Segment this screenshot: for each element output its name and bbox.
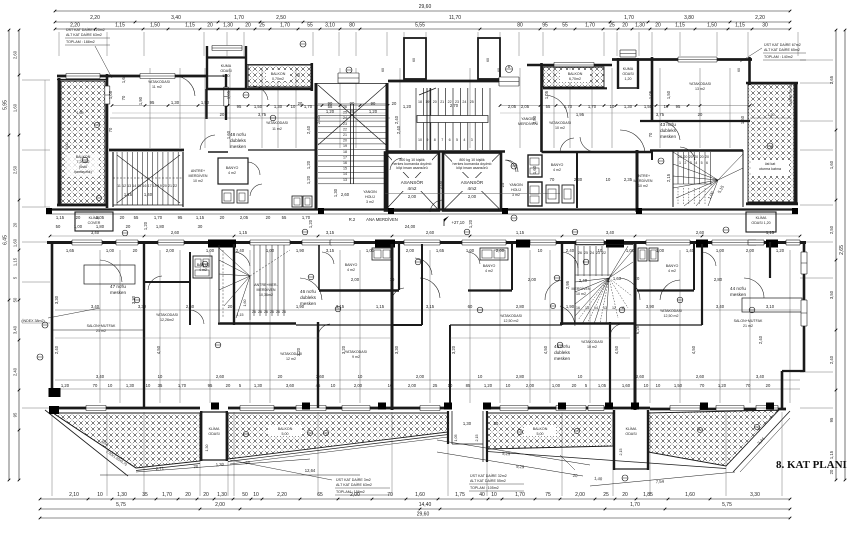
terrace hatch right segment with diagonal bbox=[648, 410, 779, 466]
svg-text:4: 4 bbox=[463, 138, 465, 142]
svg-text:(İNDEX 38m2): (İNDEX 38m2) bbox=[21, 318, 44, 323]
more door arcs upper block bbox=[175, 76, 195, 96]
svg-text:21: 21 bbox=[343, 133, 347, 137]
svg-text:16: 16 bbox=[576, 306, 580, 310]
svg-text:55: 55 bbox=[134, 215, 139, 220]
svg-text:1,30: 1,30 bbox=[624, 104, 633, 109]
svg-text:90: 90 bbox=[371, 101, 376, 106]
svg-text:24: 24 bbox=[590, 251, 594, 255]
svg-text:(üstü: (üstü bbox=[79, 165, 87, 169]
svg-text:48 no'lu: 48 no'lu bbox=[230, 132, 246, 137]
svg-text:4,50: 4,50 bbox=[156, 345, 161, 354]
svg-text:kilçi insan asansörü: kilçi insan asansörü bbox=[456, 166, 487, 170]
svg-text:20: 20 bbox=[635, 276, 640, 281]
svg-text:24,00: 24,00 bbox=[405, 224, 416, 229]
svg-text:20: 20 bbox=[655, 23, 661, 29]
svg-text:1,40: 1,40 bbox=[686, 248, 695, 253]
svg-text:12,64: 12,64 bbox=[305, 468, 316, 473]
svg-text:2,00: 2,00 bbox=[351, 277, 360, 282]
svg-text:YATAKODASI: YATAKODASI bbox=[549, 121, 571, 125]
right apartment interior walls bbox=[542, 151, 653, 153]
balcony top-left hatched BALKON 7,20m2 bbox=[61, 81, 105, 204]
svg-text:17: 17 bbox=[148, 184, 152, 188]
svg-text:10: 10 bbox=[478, 374, 483, 379]
svg-text:1,90: 1,90 bbox=[138, 96, 143, 105]
svg-text:1,00: 1,00 bbox=[466, 248, 475, 253]
svg-text:1,00: 1,00 bbox=[716, 248, 725, 253]
svg-text:1,15: 1,15 bbox=[196, 215, 205, 220]
svg-text:2,20: 2,20 bbox=[755, 15, 765, 21]
svg-text:1,50: 1,50 bbox=[150, 23, 160, 29]
svg-text:55: 55 bbox=[282, 215, 287, 220]
fire stair YANGIN MERDIVENI bbox=[315, 83, 318, 210]
svg-text:2,20: 2,20 bbox=[70, 23, 80, 29]
svg-text:70: 70 bbox=[550, 177, 555, 182]
svg-text:1,30: 1,30 bbox=[205, 445, 209, 452]
svg-text:5,00: 5,00 bbox=[282, 432, 289, 436]
svg-text:HOLÜ: HOLÜ bbox=[511, 188, 521, 192]
svg-text:21 m2: 21 m2 bbox=[743, 324, 753, 328]
svg-text:ASANSÖR: ASANSÖR bbox=[461, 179, 484, 185]
svg-text:6,25: 6,25 bbox=[635, 325, 640, 334]
svg-text:25: 25 bbox=[433, 383, 438, 388]
svg-text:11: 11 bbox=[117, 184, 121, 188]
svg-text:1,60: 1,60 bbox=[613, 276, 622, 281]
banyo room 47 apartment bbox=[193, 256, 212, 278]
wall above right stair bbox=[650, 149, 743, 151]
svg-text:8: 8 bbox=[434, 138, 436, 142]
svg-text:2,50: 2,50 bbox=[13, 165, 18, 174]
svg-text:26: 26 bbox=[343, 105, 347, 109]
svg-text:BALKON: BALKON bbox=[568, 72, 583, 76]
svg-text:20: 20 bbox=[185, 492, 191, 498]
wc fixtures below fire stair bbox=[292, 196, 302, 207]
svg-text:ANTRE+: ANTRE+ bbox=[636, 174, 650, 178]
svg-text:BANYO: BANYO bbox=[226, 166, 239, 170]
svg-text:13: 13 bbox=[603, 306, 607, 310]
svg-text:1,20: 1,20 bbox=[776, 248, 785, 253]
svg-text:2,00: 2,00 bbox=[354, 383, 363, 388]
svg-text:19: 19 bbox=[158, 184, 162, 188]
top dimension line 29,60 bbox=[55, 10, 790, 12]
svg-text:1,00: 1,00 bbox=[266, 248, 275, 253]
circle marker right of central stair bbox=[506, 66, 513, 73]
svg-text:26: 26 bbox=[264, 310, 268, 314]
svg-text:20: 20 bbox=[705, 155, 709, 159]
svg-text:3,30: 3,30 bbox=[54, 295, 59, 304]
svg-text:20: 20 bbox=[343, 139, 347, 143]
svg-text:70: 70 bbox=[700, 383, 705, 388]
svg-text:3,40: 3,40 bbox=[171, 15, 181, 21]
svg-text:1,60: 1,60 bbox=[685, 492, 695, 498]
svg-text:1,50: 1,50 bbox=[666, 90, 671, 99]
svg-text:12,26m2: 12,26m2 bbox=[160, 318, 174, 322]
svg-text:2,00: 2,00 bbox=[408, 383, 417, 388]
svg-text:2,15: 2,15 bbox=[619, 449, 623, 456]
svg-text:85: 85 bbox=[466, 383, 471, 388]
svg-text:95: 95 bbox=[829, 417, 834, 422]
svg-text:ALT KAT DAİRE 63m2: ALT KAT DAİRE 63m2 bbox=[336, 482, 372, 487]
svg-text:30: 30 bbox=[198, 224, 203, 229]
lower block left wall bbox=[51, 244, 54, 396]
svg-text:1,20: 1,20 bbox=[308, 219, 313, 228]
svg-text:7,54: 7,54 bbox=[656, 479, 665, 485]
wall stubs above central stair bbox=[404, 38, 426, 79]
svg-text:5,55: 5,55 bbox=[415, 23, 425, 29]
balcony walls bbox=[58, 78, 61, 206]
svg-text:ÜST KAT DAİRE 67m2: ÜST KAT DAİRE 67m2 bbox=[764, 42, 801, 47]
svg-text:95: 95 bbox=[13, 412, 18, 417]
kuma left wall extension down bbox=[205, 89, 207, 119]
svg-text:YATAKODASI: YATAKODASI bbox=[266, 121, 288, 125]
svg-text:1,20: 1,20 bbox=[468, 219, 473, 228]
svg-text:70: 70 bbox=[746, 383, 751, 388]
svg-text:45: 45 bbox=[316, 383, 321, 388]
svg-text:6: 6 bbox=[449, 138, 451, 142]
svg-text:1,15: 1,15 bbox=[735, 23, 745, 29]
terrace hatch right bbox=[748, 84, 794, 202]
svg-text:2,50: 2,50 bbox=[276, 15, 286, 21]
svg-text:20: 20 bbox=[76, 215, 81, 220]
svg-text:18: 18 bbox=[153, 184, 157, 188]
top dimension line row3 bbox=[55, 28, 790, 30]
svg-text:mesken: mesken bbox=[660, 134, 677, 139]
svg-text:1,70: 1,70 bbox=[234, 15, 244, 21]
svg-text:2,60: 2,60 bbox=[696, 230, 705, 235]
right wall windows bbox=[801, 252, 807, 274]
svg-text:10: 10 bbox=[491, 492, 497, 498]
svg-text:14,40: 14,40 bbox=[419, 502, 432, 508]
svg-text:2,00: 2,00 bbox=[215, 502, 225, 508]
svg-text:3,15: 3,15 bbox=[326, 248, 335, 253]
svg-text:1,15: 1,15 bbox=[13, 257, 18, 266]
svg-text:2,60: 2,60 bbox=[13, 50, 18, 59]
svg-text:20: 20 bbox=[350, 109, 355, 114]
svg-text:2,40: 2,40 bbox=[396, 125, 401, 134]
svg-text:9 m2: 9 m2 bbox=[352, 355, 360, 359]
BANYO small room left apartment bbox=[218, 158, 248, 184]
svg-text:2,10: 2,10 bbox=[69, 492, 79, 498]
interior dim lines upper block bbox=[112, 105, 388, 107]
svg-text:20: 20 bbox=[678, 155, 682, 159]
svg-text:3,10: 3,10 bbox=[325, 23, 335, 29]
svg-text:29,60: 29,60 bbox=[417, 512, 430, 518]
svg-text:ASANSÖR: ASANSÖR bbox=[401, 179, 424, 185]
svg-text:10: 10 bbox=[158, 374, 163, 379]
svg-text:11 m2: 11 m2 bbox=[272, 127, 282, 131]
svg-text:7: 7 bbox=[441, 138, 443, 142]
svg-text:3,15: 3,15 bbox=[426, 304, 435, 309]
svg-text:ALT KAT DAİRE 55m2: ALT KAT DAİRE 55m2 bbox=[470, 478, 506, 483]
circle markers in terrace bbox=[243, 431, 248, 436]
svg-text:1,50: 1,50 bbox=[674, 383, 683, 388]
svg-text:dubleks: dubleks bbox=[230, 138, 247, 143]
svg-text:24: 24 bbox=[462, 100, 466, 104]
svg-text:22: 22 bbox=[173, 184, 177, 188]
svg-text:5: 5 bbox=[701, 161, 703, 165]
svg-text:14: 14 bbox=[343, 172, 347, 176]
svg-text:çamaşırlık): çamaşırlık) bbox=[74, 170, 92, 174]
svg-text:1,15: 1,15 bbox=[376, 304, 385, 309]
svg-text:26: 26 bbox=[270, 310, 274, 314]
svg-text:24: 24 bbox=[343, 116, 347, 120]
balcony left extension line bbox=[44, 80, 46, 207]
svg-text:1,70: 1,70 bbox=[162, 492, 172, 498]
svg-text:1,70: 1,70 bbox=[178, 383, 187, 388]
svg-text:1,30: 1,30 bbox=[463, 421, 472, 426]
svg-text:2,15: 2,15 bbox=[666, 173, 671, 182]
svg-text:1,40: 1,40 bbox=[144, 192, 153, 197]
svg-text:4 m2: 4 m2 bbox=[668, 269, 676, 273]
svg-text:2,40: 2,40 bbox=[13, 367, 18, 376]
svg-text:MERDİVEN: MERDİVEN bbox=[257, 287, 276, 292]
svg-text:11,70: 11,70 bbox=[449, 15, 461, 21]
right stair upper block bbox=[677, 152, 679, 184]
svg-text:2,60: 2,60 bbox=[171, 230, 180, 235]
svg-text:KLİMA: KLİMA bbox=[209, 426, 220, 431]
wall y150 extension bbox=[248, 149, 316, 151]
svg-text:2,05: 2,05 bbox=[521, 104, 530, 109]
svg-text:1,15: 1,15 bbox=[239, 230, 248, 235]
svg-text:10,36m2: 10,36m2 bbox=[259, 293, 273, 297]
svg-text:1,05: 1,05 bbox=[648, 90, 653, 99]
svg-text:60: 60 bbox=[381, 68, 385, 72]
svg-text:2,40: 2,40 bbox=[566, 248, 575, 253]
svg-text:10: 10 bbox=[644, 383, 649, 388]
svg-text:19: 19 bbox=[425, 100, 429, 104]
svg-text:25: 25 bbox=[470, 100, 474, 104]
svg-text:2,50: 2,50 bbox=[829, 225, 834, 234]
svg-text:55: 55 bbox=[562, 23, 568, 29]
bottom dimension row3 bbox=[40, 517, 790, 519]
svg-text:13: 13 bbox=[127, 184, 131, 188]
svg-text:5,00: 5,00 bbox=[537, 432, 544, 436]
construction grid lines bottom bbox=[51, 412, 53, 496]
svg-text:YATAKODASI: YATAKODASI bbox=[581, 340, 603, 344]
svg-text:1,00: 1,00 bbox=[552, 383, 561, 388]
svg-text:20: 20 bbox=[392, 101, 397, 106]
svg-text:4,50: 4,50 bbox=[614, 345, 619, 354]
svg-text:20: 20 bbox=[163, 184, 167, 188]
svg-text:80: 80 bbox=[349, 23, 355, 29]
svg-text:20: 20 bbox=[228, 304, 233, 309]
KLIMA box right terrace bbox=[613, 410, 615, 470]
svg-text:KLİMA: KLİMA bbox=[626, 426, 637, 431]
svg-text:95: 95 bbox=[237, 104, 242, 109]
svg-text:1,20: 1,20 bbox=[306, 175, 311, 184]
svg-text:10: 10 bbox=[606, 177, 611, 182]
door arcs left apartment bbox=[200, 135, 215, 150]
svg-text:26: 26 bbox=[282, 310, 286, 314]
svg-text:1,65: 1,65 bbox=[436, 248, 445, 253]
svg-text:20: 20 bbox=[220, 112, 225, 117]
svg-text:3,20: 3,20 bbox=[296, 347, 301, 356]
svg-text:50: 50 bbox=[56, 224, 61, 229]
svg-text:10 m2: 10 m2 bbox=[193, 179, 203, 183]
svg-text:15: 15 bbox=[343, 167, 347, 171]
svg-text:10 m2: 10 m2 bbox=[576, 292, 586, 296]
interior construction verticals lower block bbox=[99, 250, 101, 403]
svg-text:2,00: 2,00 bbox=[350, 492, 360, 498]
svg-text:3,10: 3,10 bbox=[766, 304, 775, 309]
svg-text:TOPLAM : 188m2: TOPLAM : 188m2 bbox=[66, 40, 95, 44]
svg-text:10: 10 bbox=[390, 277, 395, 282]
svg-text:1,30: 1,30 bbox=[217, 492, 227, 498]
banyo room 44 apartment bbox=[693, 243, 695, 290]
svg-text:21: 21 bbox=[440, 100, 444, 104]
elevator U1 ASANSOR left bbox=[385, 153, 439, 211]
svg-text:12: 12 bbox=[612, 306, 616, 310]
svg-text:1,15: 1,15 bbox=[56, 215, 65, 220]
svg-text:8. KAT PLANI: 8. KAT PLANI bbox=[776, 459, 847, 471]
svg-text:50: 50 bbox=[242, 492, 248, 498]
svg-text:1,50: 1,50 bbox=[644, 104, 653, 109]
svg-text:10: 10 bbox=[448, 383, 453, 388]
svg-text:70: 70 bbox=[121, 95, 126, 100]
interior dim lines lower block bbox=[55, 309, 800, 311]
gap entrance middle bbox=[447, 411, 449, 444]
svg-text:1,65: 1,65 bbox=[121, 74, 126, 83]
wall between balcony and rooms bbox=[106, 74, 109, 208]
svg-text:1,00: 1,00 bbox=[106, 248, 115, 253]
svg-text:2,05: 2,05 bbox=[508, 104, 517, 109]
svg-text:+27,10: +27,10 bbox=[452, 220, 466, 225]
svg-text:1,30: 1,30 bbox=[126, 383, 135, 388]
svg-text:10 m2: 10 m2 bbox=[555, 126, 565, 130]
svg-text:TOPLAM : 140m2: TOPLAM : 140m2 bbox=[764, 55, 793, 59]
svg-text:10: 10 bbox=[146, 383, 151, 388]
svg-text:4 m2: 4 m2 bbox=[347, 268, 355, 272]
svg-text:MERDİVEN: MERDİVEN bbox=[572, 286, 591, 291]
svg-text:mesken: mesken bbox=[110, 290, 127, 295]
svg-text:1,60: 1,60 bbox=[740, 115, 745, 124]
svg-text:2,15: 2,15 bbox=[475, 435, 479, 442]
svg-text:YATAKODASI: YATAKODASI bbox=[500, 314, 522, 318]
svg-text:95: 95 bbox=[676, 104, 681, 109]
svg-text:ANA MERDİVEN: ANA MERDİVEN bbox=[366, 217, 398, 222]
terrace hatch mid-right segment bbox=[487, 413, 613, 449]
svg-text:1,15: 1,15 bbox=[124, 192, 133, 197]
top dimension line row2 bbox=[55, 21, 790, 23]
central stair top wall bbox=[388, 80, 500, 83]
svg-text:2,00: 2,00 bbox=[468, 194, 477, 199]
wall x652 bbox=[651, 57, 654, 122]
svg-text:YANGIN: YANGIN bbox=[363, 190, 377, 194]
svg-text:20: 20 bbox=[226, 383, 231, 388]
svg-text:95: 95 bbox=[208, 383, 213, 388]
svg-text:dubleks: dubleks bbox=[554, 350, 571, 355]
svg-text:1,95: 1,95 bbox=[576, 112, 585, 117]
svg-text:1,30: 1,30 bbox=[216, 462, 225, 468]
svg-text:3,75: 3,75 bbox=[656, 112, 665, 117]
svg-text:3,30: 3,30 bbox=[394, 345, 399, 354]
svg-text:3,30: 3,30 bbox=[131, 295, 136, 304]
svg-text:2,00: 2,00 bbox=[528, 277, 537, 282]
terrace bottom dim lines bbox=[136, 459, 310, 472]
small bath boxes right of hall bbox=[528, 155, 542, 177]
left dimension lines bbox=[8, 30, 10, 480]
svg-text:1,70: 1,70 bbox=[154, 215, 163, 220]
svg-text:2,71: 2,71 bbox=[156, 466, 165, 472]
thick wall y150 left apartment bbox=[109, 149, 184, 152]
svg-text:75: 75 bbox=[545, 492, 551, 498]
svg-text:2,60: 2,60 bbox=[341, 192, 350, 197]
svg-text:4 m2: 4 m2 bbox=[485, 269, 493, 273]
svg-text:10: 10 bbox=[291, 104, 296, 109]
svg-text:13 m2: 13 m2 bbox=[695, 87, 705, 91]
wall y121 right apartment bbox=[640, 120, 750, 122]
svg-text:2,40: 2,40 bbox=[394, 115, 399, 124]
svg-text:2,00: 2,00 bbox=[746, 248, 755, 253]
svg-text:1,70: 1,70 bbox=[304, 104, 313, 109]
svg-text:10: 10 bbox=[358, 374, 363, 379]
svg-text:1,05: 1,05 bbox=[108, 90, 113, 99]
svg-text:1,30: 1,30 bbox=[223, 23, 233, 29]
more door arcs lower block bbox=[148, 276, 162, 290]
corridor markers bbox=[122, 230, 128, 236]
svg-text:1,90: 1,90 bbox=[296, 304, 305, 309]
counter lower-left room bbox=[84, 265, 135, 284]
svg-text:6,45: 6,45 bbox=[3, 235, 9, 245]
svg-text:2,00: 2,00 bbox=[408, 194, 417, 199]
svg-text:25: 25 bbox=[500, 182, 505, 187]
svg-text:1,00: 1,00 bbox=[656, 248, 665, 253]
top wall left apartment bbox=[57, 75, 207, 78]
svg-text:90: 90 bbox=[350, 101, 355, 106]
svg-text:üst kat: üst kat bbox=[765, 162, 776, 166]
svg-text:2,60: 2,60 bbox=[186, 304, 195, 309]
svg-text:KUMA: KUMA bbox=[623, 67, 634, 71]
svg-text:20: 20 bbox=[203, 492, 209, 498]
svg-text:1,30: 1,30 bbox=[333, 188, 338, 197]
svg-text:20: 20 bbox=[689, 155, 693, 159]
corridor left KLIMA COVER box bbox=[75, 212, 113, 231]
svg-text:3,40: 3,40 bbox=[756, 374, 765, 379]
svg-text:47 no'lu: 47 no'lu bbox=[110, 284, 126, 289]
svg-text:20: 20 bbox=[266, 215, 271, 220]
svg-text:2,40: 2,40 bbox=[306, 125, 311, 134]
balcony hatch right apartment BALKON 6,70m2 bbox=[543, 67, 604, 87]
svg-text:3,20: 3,20 bbox=[341, 345, 346, 354]
svg-text:mesken: mesken bbox=[554, 356, 571, 361]
svg-text:1: 1 bbox=[679, 161, 681, 165]
svg-text:9: 9 bbox=[426, 138, 428, 142]
svg-text:16: 16 bbox=[143, 184, 147, 188]
bottom wall pillars bbox=[211, 403, 219, 410]
svg-text:3,80: 3,80 bbox=[684, 15, 694, 21]
svg-text:95: 95 bbox=[150, 100, 155, 105]
corridor right KLIMA ODASI box bbox=[746, 212, 776, 232]
svg-text:25: 25 bbox=[609, 23, 615, 29]
wc fixtures right apartment bbox=[546, 185, 559, 203]
elevator U2 ASANSOR right bbox=[443, 153, 501, 211]
svg-text:23: 23 bbox=[343, 122, 347, 126]
svg-text:3,40: 3,40 bbox=[13, 325, 18, 334]
svg-text:2,80: 2,80 bbox=[516, 304, 525, 309]
small hatched balcony strip bbox=[248, 65, 311, 87]
lower block bottom wall bbox=[52, 407, 200, 410]
wc fixtures left apartment bbox=[222, 190, 234, 203]
svg-text:10: 10 bbox=[253, 492, 259, 498]
svg-text:ALT KAT DAİRE 63m2: ALT KAT DAİRE 63m2 bbox=[66, 32, 102, 37]
svg-text:70: 70 bbox=[93, 383, 98, 388]
svg-text:20: 20 bbox=[700, 155, 704, 159]
svg-text:10: 10 bbox=[108, 383, 113, 388]
svg-text:10: 10 bbox=[598, 248, 603, 253]
svg-text:3,40: 3,40 bbox=[606, 230, 615, 235]
svg-text:YATAKODASI: YATAKODASI bbox=[156, 313, 178, 317]
svg-text:ODASI 1,20: ODASI 1,20 bbox=[751, 221, 770, 225]
